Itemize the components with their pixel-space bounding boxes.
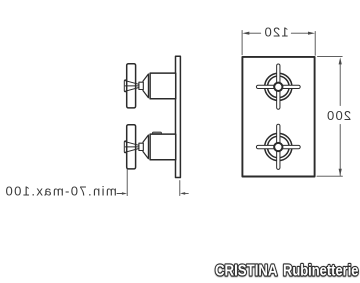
svg-text:CRISTINA: CRISTINA: [215, 263, 278, 280]
label 200 (mirrored): [326, 108, 351, 123]
handle front stub (side view, top): [124, 80, 127, 92]
front plate (front view): [242, 57, 314, 177]
valve body (side view, bottom): [124, 125, 175, 169]
handle taper lines (side view, bottom): [125, 142, 139, 153]
dimension min.70-max.100: [117, 169, 188, 195]
watermark CRISTINA Rubinetterie: [215, 263, 359, 280]
cone (side view, bottom): [143, 135, 148, 159]
extension line (wall face): [179, 181, 181, 196]
dim line upper segment: [339, 64, 341, 106]
wall plate (side view): [176, 56, 181, 177]
extension line left: [241, 30, 243, 54]
body tab (bottom valve): [152, 132, 161, 135]
valve body (side view, top): [124, 64, 175, 108]
arrow down: [339, 169, 342, 176]
arrow left (to handle line): [117, 193, 123, 195]
handle taper lines (side view, top): [125, 81, 139, 92]
extension line (handle face): [126, 169, 128, 195]
label min.70-max.100 (mirrored): [4, 184, 117, 199]
dim line lower segment: [339, 125, 341, 176]
label 120 (mirrored): [263, 25, 288, 40]
extension line right: [314, 32, 316, 56]
handle bar (side view, top): [127, 64, 136, 108]
cone (side view, top): [143, 74, 148, 98]
extension line top: [318, 56, 343, 58]
handle front stub (side view, bottom): [124, 141, 127, 153]
handle crosshair (front view, top): [256, 64, 300, 109]
svg-text:min.70-max.100: min.70-max.100: [4, 184, 117, 199]
svg-text:120: 120: [263, 25, 288, 40]
dim line right segment: [291, 32, 309, 34]
dimension 200 (right): [317, 57, 342, 177]
arrow right: [308, 32, 315, 35]
stem (side view, bottom): [139, 143, 143, 150]
svg-text:200: 200: [326, 108, 351, 123]
svg-text:Rubinetterie: Rubinetterie: [283, 263, 359, 280]
extension line bottom: [317, 175, 342, 177]
arrow left: [242, 32, 249, 35]
dimension 120 (top): [242, 30, 315, 55]
dim line left segment: [249, 32, 261, 34]
arrow right (to wall line): [184, 192, 189, 194]
stem (side view, top): [139, 82, 143, 89]
handle crosshair (front view, bottom): [256, 124, 300, 169]
handle bar (side view, bottom): [127, 125, 136, 169]
arrow up: [339, 57, 342, 64]
